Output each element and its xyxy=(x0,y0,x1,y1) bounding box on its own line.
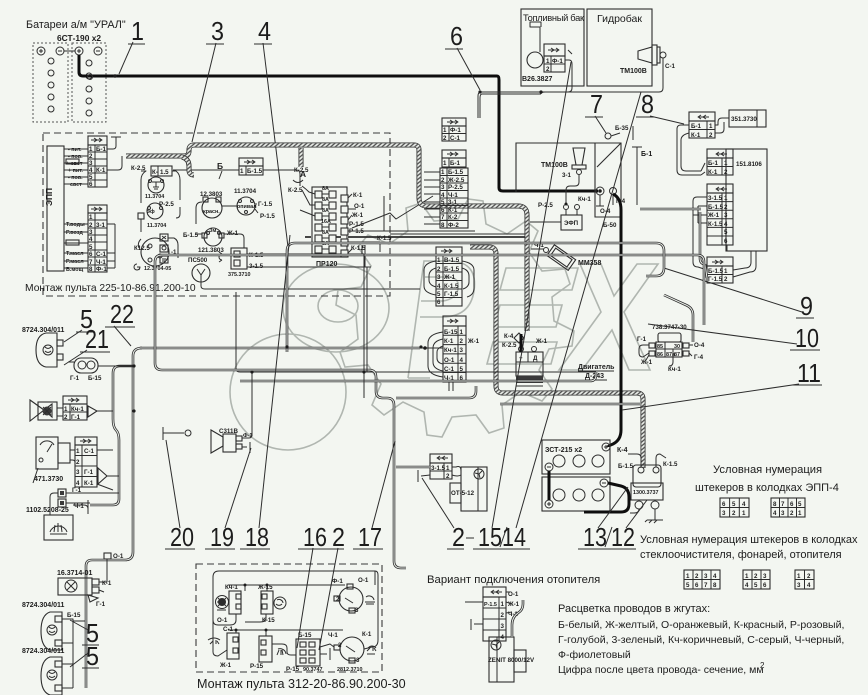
connector 471 xyxy=(75,437,107,487)
wire comp row1 xyxy=(196,202,258,224)
pin labels left of XP2 xyxy=(66,222,85,273)
harness run mid xyxy=(240,372,596,381)
ground at XP1 xyxy=(107,137,121,149)
callout 12 xyxy=(606,500,647,552)
EPP panel xyxy=(44,146,64,271)
wire 16.3714 xyxy=(99,559,107,592)
connector F1/C1 xyxy=(442,118,466,142)
svg-text:Р-2.5: Р-2.5 xyxy=(538,202,553,209)
pin block D xyxy=(743,570,770,589)
svg-text:2: 2 xyxy=(441,177,445,184)
svg-text:3-1: 3-1 xyxy=(96,222,106,229)
wire ZST minus loop xyxy=(584,483,629,512)
svg-text:8: 8 xyxy=(773,501,777,508)
wire marker xyxy=(57,408,113,416)
svg-text:Ж-1: Ж-1 xyxy=(443,274,456,281)
horn C311B xyxy=(211,428,252,453)
comp 121.3803 xyxy=(183,228,239,254)
starter terminals xyxy=(596,187,626,229)
gauge 471.3730 xyxy=(33,437,70,483)
svg-text:6: 6 xyxy=(441,207,445,214)
svg-text:К-1.5: К-1.5 xyxy=(663,461,678,468)
svg-text:12: 12 xyxy=(611,522,635,552)
svg-text:Ф-1: Ф-1 xyxy=(552,58,563,65)
svg-text:К-4: К-4 xyxy=(617,447,628,454)
svg-text:3-1.5: 3-1.5 xyxy=(708,195,723,202)
pin block C xyxy=(684,570,720,589)
svg-text:Условная нумерация штекеров в: Условная нумерация штекеров в колодках xyxy=(640,534,858,546)
svg-text:Ф-1: Ф-1 xyxy=(332,578,343,585)
pin block E xyxy=(795,570,814,589)
fuse block PR120 xyxy=(288,167,347,268)
svg-text:Батареи а/м "УРАЛ": Батареи а/м "УРАЛ" xyxy=(26,19,126,31)
svg-text:2: 2 xyxy=(760,661,765,670)
callout 22 xyxy=(105,299,135,346)
wire C311B drop xyxy=(252,254,367,436)
svg-text:- пов.: - пов. xyxy=(68,175,83,181)
wires 1102 xyxy=(50,493,119,515)
svg-text:Г-1: Г-1 xyxy=(96,601,106,608)
svg-text:18: 18 xyxy=(245,522,269,552)
svg-text:1: 1 xyxy=(797,573,801,580)
svg-text:1: 1 xyxy=(798,510,802,517)
harness run 398 right xyxy=(396,386,476,398)
svg-text:Ж-1: Ж-1 xyxy=(507,601,520,608)
wire battery main positive xyxy=(79,55,598,191)
svg-text:Ч-1: Ч-1 xyxy=(74,503,84,510)
svg-text:Гидробак: Гидробак xyxy=(597,13,642,25)
svg-text:2: 2 xyxy=(709,132,713,139)
heater OT-5-12 xyxy=(450,467,487,512)
svg-text:1: 1 xyxy=(76,448,80,455)
connector B-1 xyxy=(442,150,466,167)
wire MM358 xyxy=(531,248,544,250)
svg-text:8А: 8А xyxy=(322,230,329,236)
connector right 2row b xyxy=(707,149,733,176)
harness left branch pair xyxy=(90,366,133,505)
wire bundle bracket E xyxy=(428,332,443,377)
svg-text:4: 4 xyxy=(460,357,464,364)
svg-text:6: 6 xyxy=(89,251,93,258)
svg-text:3: 3 xyxy=(356,657,360,664)
battery ZST box1 xyxy=(542,440,628,474)
headlamp H1 8724.304/011 xyxy=(22,327,65,367)
wires EPP to XP2 xyxy=(64,224,88,268)
svg-text:К-2: К-2 xyxy=(448,214,458,221)
harness left vertical pair xyxy=(86,348,142,688)
svg-text:С-1: С-1 xyxy=(450,135,461,142)
svg-text:Монтаж пульта 225-10-86.91.200: Монтаж пульта 225-10-86.91.200-10 xyxy=(25,283,196,294)
svg-text:3: 3 xyxy=(460,347,464,354)
connector B-35 xyxy=(605,125,633,140)
svg-text:2: 2 xyxy=(338,642,342,649)
svg-text:К-2.5: К-2.5 xyxy=(502,342,517,349)
battery GB2 xyxy=(72,43,106,122)
svg-text:Ж-2.5: Ж-2.5 xyxy=(447,177,465,184)
svg-text:15: 15 xyxy=(478,522,502,552)
svg-text:5: 5 xyxy=(754,582,758,589)
connector right 2row c xyxy=(707,257,733,283)
svg-text:3: 3 xyxy=(355,607,359,614)
svg-text:3: 3 xyxy=(781,510,785,517)
sensor TM100V engine xyxy=(541,148,586,179)
pin labels left of XP1 xyxy=(66,147,83,188)
callout 21 xyxy=(64,324,110,365)
svg-text:ПС500: ПС500 xyxy=(188,257,208,264)
svg-text:6: 6 xyxy=(695,582,699,589)
wire K-1.5 bold xyxy=(305,236,527,238)
svg-text:К-2.5: К-2.5 xyxy=(288,187,303,194)
svg-text:4: 4 xyxy=(89,167,93,174)
callout 13 xyxy=(578,487,628,552)
svg-text:Р-1.5: Р-1.5 xyxy=(484,602,497,608)
callout 10 xyxy=(648,323,820,353)
svg-text:ТМ100В: ТМ100В xyxy=(541,162,568,169)
svg-text:8А: 8А xyxy=(322,186,329,192)
svg-text:6: 6 xyxy=(437,299,441,306)
fuel sender B26.3827 xyxy=(522,22,565,83)
watermark letter E xyxy=(487,268,578,364)
wire box mid bus xyxy=(213,585,345,625)
svg-text:351.3730: 351.3730 xyxy=(731,116,757,123)
svg-text:О-1: О-1 xyxy=(113,553,124,560)
svg-text:20: 20 xyxy=(170,522,194,552)
harness loop B xyxy=(287,243,664,352)
svg-text:Р-15: Р-15 xyxy=(250,663,264,670)
svg-text:стеклоочистителя, фонарей, ото: стеклоочистителя, фонарей, отопителя xyxy=(640,549,842,561)
engine box xyxy=(516,143,621,217)
svg-text:Б-1: Б-1 xyxy=(691,123,702,130)
svg-text:5: 5 xyxy=(441,199,445,206)
svg-text:1: 1 xyxy=(443,160,447,167)
wire relay K2 xyxy=(141,207,180,232)
svg-text:К-15: К-15 xyxy=(262,617,275,624)
svg-text:86: 86 xyxy=(657,352,663,358)
battery GB1 xyxy=(33,43,68,122)
svg-text:С-1: С-1 xyxy=(96,251,107,258)
svg-text:7: 7 xyxy=(590,89,603,119)
wire TM100V down xyxy=(566,175,579,204)
svg-text:4: 4 xyxy=(437,283,441,290)
callout 16 xyxy=(297,522,328,648)
wires heater conn xyxy=(465,592,512,630)
wire ZENIT to conn pair xyxy=(512,600,523,637)
svg-text:151.8106: 151.8106 xyxy=(736,161,762,168)
wire 3-1.5 left pair xyxy=(396,466,430,469)
connector 6-row mid xyxy=(436,247,462,306)
svg-text:1: 1 xyxy=(446,465,450,472)
switch S6 round 2812.3710 xyxy=(334,631,376,673)
svg-text:О-4: О-4 xyxy=(600,208,611,215)
svg-text:2: 2 xyxy=(724,276,728,283)
svg-text:6: 6 xyxy=(722,501,726,508)
svg-text:ПР120: ПР120 xyxy=(316,261,337,268)
svg-text:8724.304/011: 8724.304/011 xyxy=(22,648,65,655)
slash 13-12 xyxy=(605,527,612,547)
svg-text:11: 11 xyxy=(797,358,821,388)
svg-text:3: 3 xyxy=(211,16,224,46)
svg-text:3-1: 3-1 xyxy=(448,199,458,206)
svg-text:ОТ-5-12: ОТ-5-12 xyxy=(451,490,475,497)
svg-text:8: 8 xyxy=(89,266,93,273)
svg-text:3: 3 xyxy=(76,469,80,476)
callout 19 xyxy=(205,448,251,552)
svg-text:Д: Д xyxy=(533,355,538,362)
wire row6 down xyxy=(727,245,756,277)
relay K1 11.3704 xyxy=(131,165,172,200)
svg-text:Б-50: Б-50 xyxy=(603,222,617,229)
wire fuel sender out xyxy=(478,50,572,118)
svg-text:2812.3710: 2812.3710 xyxy=(337,667,362,673)
svg-text:2: 2 xyxy=(724,204,728,211)
callout 5b xyxy=(70,618,99,648)
svg-text:3: 3 xyxy=(724,212,728,219)
fuses 8A x6 xyxy=(315,186,336,253)
svg-text:3: 3 xyxy=(797,582,801,589)
svg-text:Г-1: Г-1 xyxy=(70,375,80,382)
svg-text:6: 6 xyxy=(763,582,767,589)
PS500 horn xyxy=(188,257,210,282)
svg-text:2: 2 xyxy=(452,522,465,552)
relay K3 12.3704-05 xyxy=(134,234,177,272)
svg-text:12.3704-05: 12.3704-05 xyxy=(144,266,171,272)
svg-text:2: 2 xyxy=(443,135,447,142)
svg-text:Б-1: Б-1 xyxy=(450,160,461,167)
svg-text:16А: 16А xyxy=(321,219,331,225)
callout 8 xyxy=(636,89,684,124)
svg-text:Б-1: Б-1 xyxy=(96,146,107,153)
wire 1300 ground xyxy=(645,509,663,523)
heater ZENIT xyxy=(488,637,535,682)
svg-text:Г-4: Г-4 xyxy=(694,354,704,361)
dashed box pult 225 xyxy=(43,133,390,296)
svg-text:1: 1 xyxy=(745,573,749,580)
svg-text:5: 5 xyxy=(686,582,690,589)
lamp PF turn xyxy=(70,358,102,382)
svg-text:Б-15: Б-15 xyxy=(298,632,312,639)
harness right blocks xyxy=(640,209,707,278)
wire right conn down xyxy=(677,125,705,175)
svg-text:Цифра после цвета провода- сеч: Цифра после цвета провода- сечение, мм xyxy=(558,664,764,676)
callout 5a xyxy=(64,304,93,342)
connector 1 B-1.5 xyxy=(239,158,263,175)
switch S1 fan xyxy=(216,584,242,624)
svg-text:О-4: О-4 xyxy=(694,342,705,349)
harness hook to relays (hatched) xyxy=(182,157,194,175)
svg-text:Б-1: Б-1 xyxy=(708,160,719,167)
svg-text:30: 30 xyxy=(674,344,680,350)
svg-text:О-1: О-1 xyxy=(217,617,228,624)
svg-text:Р.масл: Р.масл xyxy=(66,259,84,265)
svg-text:7: 7 xyxy=(441,214,445,221)
svg-text:1: 1 xyxy=(686,573,690,580)
svg-text:2: 2 xyxy=(460,338,464,345)
fuel tank box xyxy=(521,9,585,86)
relay 90.3747 xyxy=(286,632,338,673)
svg-text:К-1: К-1 xyxy=(96,167,106,174)
svg-text:5: 5 xyxy=(724,229,728,236)
connector right 6row xyxy=(707,184,733,245)
svg-text:Ф-1: Ф-1 xyxy=(96,266,107,273)
svg-text:85: 85 xyxy=(657,344,663,350)
svg-text:16: 16 xyxy=(303,522,327,552)
wires 8-row fan xyxy=(424,172,440,224)
svg-text:2: 2 xyxy=(695,573,699,580)
harness loop A xyxy=(155,255,704,568)
svg-text:1: 1 xyxy=(89,214,93,221)
svg-text:1: 1 xyxy=(724,195,728,202)
svg-text:2: 2 xyxy=(501,612,505,619)
svg-text:4: 4 xyxy=(807,582,811,589)
svg-text:Ж-1: Ж-1 xyxy=(219,662,232,669)
wire diag zigzag xyxy=(352,196,433,228)
svg-text:Б-1.5: Б-1.5 xyxy=(444,266,460,273)
wire EFP xyxy=(530,210,577,222)
svg-text:6: 6 xyxy=(89,181,93,188)
wire starter O-4 xyxy=(596,195,604,206)
wires relay 738 xyxy=(639,345,693,366)
svg-text:4: 4 xyxy=(773,510,777,517)
svg-text:красн.: красн. xyxy=(203,209,220,215)
svg-text:3-1.5: 3-1.5 xyxy=(431,465,446,472)
svg-text:6: 6 xyxy=(790,501,794,508)
callout 1 xyxy=(119,16,145,74)
EFP plugs xyxy=(538,196,591,230)
connector heater xyxy=(483,587,520,641)
wire hydro sensor out xyxy=(480,58,663,118)
relay 1300.3737 xyxy=(618,461,678,509)
wire generator xyxy=(520,334,523,352)
svg-text:8А: 8А xyxy=(322,197,329,203)
svg-text:С-1: С-1 xyxy=(665,63,676,70)
svg-text:11.3704: 11.3704 xyxy=(234,188,257,195)
svg-text:5: 5 xyxy=(89,244,93,251)
wires PR120 right xyxy=(348,194,527,253)
svg-text:Б-белый, Ж-желтый, О-оранжевый: Б-белый, Ж-желтый, О-оранжевый, К-красны… xyxy=(558,619,844,631)
svg-text:О-1: О-1 xyxy=(444,357,455,364)
wires box lower bus xyxy=(213,629,378,656)
svg-text:1: 1 xyxy=(89,146,93,153)
slash 15-14 xyxy=(500,527,507,547)
svg-text:+ пит.: + пит. xyxy=(68,168,83,174)
svg-text:В-1.5: В-1.5 xyxy=(444,257,460,264)
svg-text:1: 1 xyxy=(742,510,746,517)
svg-text:ЭПП: ЭПП xyxy=(44,188,54,206)
svg-text:К-1: К-1 xyxy=(84,480,94,487)
svg-text:17: 17 xyxy=(358,522,382,552)
marker lamp bowtie xyxy=(30,400,57,421)
svg-text:ММ358: ММ358 xyxy=(578,260,601,267)
comp 12.3803 xyxy=(200,191,223,218)
svg-text:2: 2 xyxy=(89,222,93,229)
fuse out pins xyxy=(341,192,366,257)
svg-text:5: 5 xyxy=(798,501,802,508)
svg-text:Ж-1: Ж-1 xyxy=(467,338,480,345)
svg-text:С-1: С-1 xyxy=(84,448,95,455)
svg-text:375.3710: 375.3710 xyxy=(228,272,250,278)
svg-text:штекеров в колодках ЭПП-4: штекеров в колодках ЭПП-4 xyxy=(695,482,839,494)
connector right top 2row xyxy=(689,112,715,139)
svg-text:8: 8 xyxy=(641,89,654,119)
svg-text:Г-1: Г-1 xyxy=(637,336,647,343)
svg-text:5: 5 xyxy=(437,291,441,298)
svg-text:1.5: 1.5 xyxy=(160,169,169,176)
wires right 6row left rail xyxy=(693,197,707,270)
connector E-block xyxy=(443,316,480,382)
wire box top bus xyxy=(213,571,378,640)
svg-text:3: 3 xyxy=(441,184,445,191)
watermark circle xyxy=(230,334,346,450)
svg-text:2: 2 xyxy=(724,169,728,176)
svg-text:К-1.5: К-1.5 xyxy=(444,283,459,290)
hydro tank box xyxy=(587,9,652,86)
svg-text:К-1: К-1 xyxy=(708,169,718,176)
svg-text:5: 5 xyxy=(89,174,93,181)
svg-text:7: 7 xyxy=(704,582,708,589)
callout 3 xyxy=(192,16,224,142)
headlamp H2 xyxy=(22,602,81,650)
sensor TM100V hydro xyxy=(620,45,676,75)
switch S2 xyxy=(257,584,286,624)
svg-text:2: 2 xyxy=(807,573,811,580)
svg-text:13: 13 xyxy=(583,522,607,552)
svg-text:2: 2 xyxy=(732,510,736,517)
svg-text:2: 2 xyxy=(336,596,340,603)
harness A drop (hatched) xyxy=(299,148,304,167)
svg-text:4: 4 xyxy=(441,192,445,199)
box 151.8106 xyxy=(726,149,767,251)
callout 2b xyxy=(319,522,345,650)
svg-text:Ф-фиолетовый: Ф-фиолетовый xyxy=(558,649,631,661)
svg-text:Г-1: Г-1 xyxy=(71,414,81,421)
watermark letter X xyxy=(559,264,658,370)
wire B-1 vertical xyxy=(632,147,652,205)
svg-text:3: 3 xyxy=(501,623,505,630)
svg-text:2: 2 xyxy=(89,153,93,160)
svg-text:9: 9 xyxy=(800,291,813,321)
callout 20 xyxy=(165,440,195,552)
svg-text:А: А xyxy=(300,169,306,179)
svg-text:10: 10 xyxy=(795,323,819,353)
wires 471 xyxy=(70,450,119,490)
callout 5c xyxy=(70,641,99,671)
svg-text:- пит.: - пит. xyxy=(68,147,82,153)
label engine D-243 xyxy=(578,364,615,380)
svg-text:Ж-1: Ж-1 xyxy=(351,212,364,219)
callout 14 xyxy=(500,92,641,552)
harness mid vertical (hatched) xyxy=(470,247,643,468)
relay 738.3747-30 xyxy=(637,324,705,373)
svg-text:К-1.5: К-1.5 xyxy=(351,245,366,252)
svg-text:3: 3 xyxy=(763,573,767,580)
connector marker xyxy=(63,396,97,421)
svg-text:Кч-1: Кч-1 xyxy=(71,406,84,413)
svg-text:свет: свет xyxy=(70,182,82,188)
svg-text:2: 2 xyxy=(64,414,68,421)
svg-text:2: 2 xyxy=(546,66,550,73)
callout 11 xyxy=(622,358,822,410)
svg-text:ЗСТ-215 х2: ЗСТ-215 х2 xyxy=(545,447,582,454)
svg-text:Расцветка проводов в жгутах:: Расцветка проводов в жгутах: xyxy=(558,603,710,615)
svg-text:К-: К- xyxy=(152,169,158,176)
connector O-1 xyxy=(104,553,124,560)
svg-text:1: 1 xyxy=(443,127,447,134)
comp 11.3704b xyxy=(234,188,275,220)
callout 4 xyxy=(254,16,288,247)
switch S3 round xyxy=(332,577,375,614)
svg-text:К-4: К-4 xyxy=(504,333,514,340)
svg-text:Б-15: Б-15 xyxy=(67,612,81,619)
